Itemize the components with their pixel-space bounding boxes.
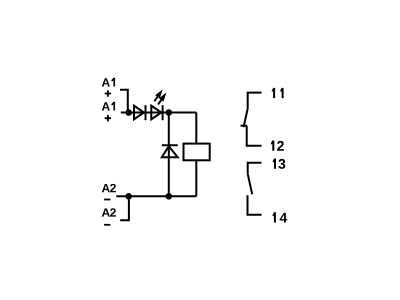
wire A1 upper elbow [120,90,128,113]
node dot bottom diode [166,193,173,200]
LED arrow 2 [156,91,169,106]
label 13 [273,159,286,169]
node dot top LED [166,109,173,116]
symbol + (lower) [105,115,111,122]
label A1 (upper) [102,78,115,87]
label A2 (lower) [102,208,116,216]
label A1 (lower) [102,102,115,111]
label 14 [273,212,288,222]
wire coil bottom to bus [195,160,197,196]
diode D1 [134,106,144,120]
node dot top A1 [125,109,132,116]
symbol + (upper) [105,90,111,97]
label 11 [272,88,284,98]
label A2 (upper) [102,184,116,192]
contact 11-12 (NC) [248,93,262,109]
wire diode branch vertical [168,113,170,197]
LED arrow 1 [152,88,165,103]
freewheeling diode D3 [162,144,178,146]
label 12 [271,141,284,151]
wire A2 lower elbow [120,196,129,220]
contact 13-14 (NO) [248,163,262,174]
wire right drop to coil [195,113,197,144]
symbol - (lower) [104,224,110,226]
relay coil K1 [184,144,210,161]
node dot bottom A2 [125,193,132,200]
wire main bottom [116,195,196,197]
LED D2 [151,106,161,120]
symbol - (upper) [104,199,110,201]
wire main top [121,112,197,114]
